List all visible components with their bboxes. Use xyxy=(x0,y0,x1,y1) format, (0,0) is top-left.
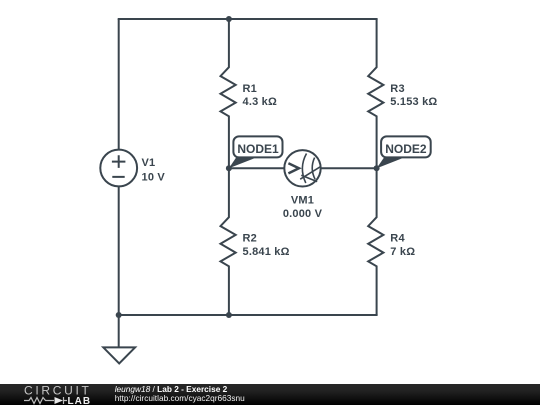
svg-text:10 V: 10 V xyxy=(142,172,166,184)
node NODE1 pointer xyxy=(229,157,255,168)
wire NODE1 to voltmeter xyxy=(229,167,284,169)
CircuitLab logo squiggle wire xyxy=(24,397,67,404)
node NODE2 pointer xyxy=(377,157,403,168)
junction top middle xyxy=(226,16,232,22)
resistor R1 and middle branch upper wire xyxy=(221,19,236,168)
junction bottom left xyxy=(116,312,122,318)
svg-text:7 kΩ: 7 kΩ xyxy=(390,246,415,258)
wire left branch upper (top wire to V1) xyxy=(118,19,120,150)
svg-text:R2: R2 xyxy=(243,233,257,245)
voltage source V1 xyxy=(100,150,137,187)
svg-text:http://circuitlab.com/cyac2qr6: http://circuitlab.com/cyac2qr663snu xyxy=(115,393,245,403)
svg-text:V1: V1 xyxy=(142,157,156,169)
voltmeter VM1 xyxy=(284,150,320,186)
resistor R4 and right branch lower wire xyxy=(368,168,383,315)
svg-text:R4: R4 xyxy=(390,233,405,245)
node NODE1 label box xyxy=(233,136,282,157)
svg-text:5.153 kΩ: 5.153 kΩ xyxy=(390,96,437,108)
resistor R2 and middle branch lower wire xyxy=(221,168,236,315)
junction bottom middle xyxy=(226,312,232,318)
voltmeter VM1 internals xyxy=(288,154,320,184)
svg-text:NODE1: NODE1 xyxy=(237,142,279,156)
CircuitLab logo diode xyxy=(55,397,64,404)
svg-text:0.000 V: 0.000 V xyxy=(283,208,323,220)
wire voltmeter to NODE2 xyxy=(321,167,377,169)
svg-text:4.3 kΩ: 4.3 kΩ xyxy=(243,96,278,108)
wire ground stem xyxy=(118,315,120,347)
svg-text:VM1: VM1 xyxy=(291,195,314,207)
svg-text:NODE2: NODE2 xyxy=(385,142,427,156)
node NODE2 label box xyxy=(381,136,431,157)
svg-text:5.841 kΩ: 5.841 kΩ xyxy=(243,246,290,258)
ground xyxy=(103,347,135,363)
svg-text:R3: R3 xyxy=(390,83,404,95)
svg-text:LAB: LAB xyxy=(68,396,92,405)
svg-text:R1: R1 xyxy=(243,83,257,95)
resistor R3 and right branch upper wire xyxy=(368,19,383,168)
wire bottom horizontal xyxy=(119,314,378,316)
junction NODE2 xyxy=(374,165,380,171)
junction NODE1 xyxy=(226,165,232,171)
wire top horizontal xyxy=(118,18,378,20)
wire left branch lower (V1 to bottom wire) xyxy=(118,186,120,315)
